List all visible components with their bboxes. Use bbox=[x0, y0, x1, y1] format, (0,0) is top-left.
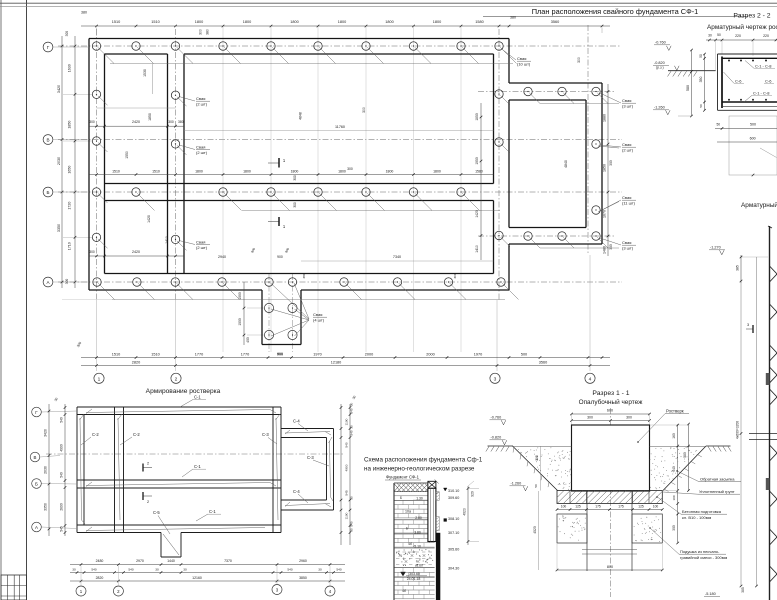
svg-text:380: 380 bbox=[206, 29, 210, 35]
lower plan С-1 label top with leader bbox=[180, 395, 206, 408]
svg-text:1420: 1420 bbox=[475, 210, 479, 218]
right excavation slope line section 1-1 bbox=[663, 446, 706, 492]
svg-text:(4 шт): (4 шт) bbox=[313, 318, 325, 323]
rebar section dots section 2-2 bbox=[728, 60, 767, 101]
svg-text:50: 50 bbox=[699, 104, 703, 108]
grid centerline column 1 vertical dash-dot bbox=[96, 29, 98, 371]
svg-text:1580: 1580 bbox=[475, 20, 483, 24]
svg-text:1850: 1850 bbox=[148, 113, 152, 121]
svg-text:1800: 1800 bbox=[243, 20, 251, 24]
pile circles along annex bottom wall (Свая 3 шт) bbox=[524, 232, 619, 248]
svg-text:340: 340 bbox=[672, 466, 676, 472]
page frame inner left border line bbox=[26, 0, 28, 600]
lower plan grid bubble 4 bbox=[325, 566, 335, 597]
svg-text:380: 380 bbox=[302, 273, 306, 278]
svg-text:4840: 4840 bbox=[564, 160, 568, 168]
svg-text:3.80: 3.80 bbox=[414, 530, 421, 534]
rebar labels С-1 С-8 С-6 section 2-2 bbox=[724, 61, 776, 103]
svg-text:30: 30 bbox=[350, 528, 354, 532]
svg-text:385: 385 bbox=[741, 587, 745, 593]
svg-text:500: 500 bbox=[750, 123, 756, 127]
annex top wall centerline dash-dot bbox=[478, 91, 614, 93]
svg-text:1530: 1530 bbox=[143, 69, 147, 77]
svg-text:540: 540 bbox=[60, 472, 64, 478]
svg-text:380: 380 bbox=[178, 120, 184, 124]
grid bubble column 4 bbox=[585, 373, 595, 383]
svg-text:Ростверк: Ростверк bbox=[666, 409, 684, 414]
svg-text:1090: 1090 bbox=[238, 292, 242, 300]
svg-text:12160: 12160 bbox=[192, 576, 202, 580]
svg-text:600: 600 bbox=[607, 409, 613, 413]
right ground line with hatches section 1-1 bbox=[706, 446, 731, 452]
lower plan С-1 label bottom wall bbox=[196, 509, 221, 521]
svg-text:2420: 2420 bbox=[132, 120, 140, 124]
lower plan left inner dimension line 540 4990 540 2890 545 bbox=[54, 397, 67, 536]
lower plan С-3 label annex right wall bbox=[307, 455, 329, 466]
svg-text:(3 шт): (3 шт) bbox=[622, 246, 634, 251]
section subtitle Опалубочный чертеж bbox=[579, 398, 643, 406]
label Обратная засыпка with leader bbox=[676, 470, 741, 481]
annex bottom wall centerline dash-dot bbox=[478, 235, 614, 237]
svg-text:2030: 2030 bbox=[57, 157, 61, 165]
elevation mark -1.270 bbox=[709, 246, 725, 255]
borehole water level mark 303.60 24.01.18 bbox=[394, 572, 435, 581]
lower plan grid bubble 3 bbox=[272, 566, 282, 595]
lower plan interior wall strip column 2 bbox=[115, 407, 124, 533]
svg-text:Свая: Свая bbox=[196, 240, 205, 245]
svg-text:1970: 1970 bbox=[474, 352, 482, 356]
svg-text:Опалубочный чертеж: Опалубочный чертеж bbox=[579, 398, 643, 406]
svg-text:300: 300 bbox=[65, 279, 69, 285]
svg-text:1: 1 bbox=[98, 376, 101, 382]
svg-text:300: 300 bbox=[362, 107, 366, 113]
rebar run lines inside lower plan walls bbox=[80, 409, 334, 532]
svg-text:С-1: С-1 bbox=[194, 395, 201, 400]
svg-text:План расположения свайного фун: План расположения свайного фундамента СФ… bbox=[532, 7, 699, 16]
svg-text:2820: 2820 bbox=[96, 576, 104, 580]
svg-text:(2 шт): (2 шт) bbox=[196, 150, 208, 155]
svg-text:30: 30 bbox=[350, 425, 354, 429]
svg-text:4990: 4990 bbox=[60, 444, 64, 452]
lower plan С-4 label annex top bbox=[293, 419, 308, 432]
svg-text:1800: 1800 bbox=[433, 170, 441, 174]
svg-text:7370: 7370 bbox=[224, 559, 232, 563]
title Схема расположения фундамента Сф-1 bbox=[364, 457, 483, 473]
borehole layer 7 brick bottom bbox=[394, 568, 435, 599]
right backfill soil stipple section 1-1 bbox=[650, 447, 707, 490]
svg-text:1550: 1550 bbox=[125, 151, 129, 159]
lower plan middle wall strip row Б bbox=[77, 480, 281, 488]
bottom dimension row 1 of top plan (1510 1510 1770 1770 900 1970 2000 ...) bbox=[76, 341, 610, 359]
grid bubble column 3 bbox=[490, 373, 500, 383]
svg-text:300: 300 bbox=[65, 31, 69, 37]
svg-text:2420: 2420 bbox=[132, 250, 140, 254]
label Свая 2 шт annex right with leader bbox=[600, 142, 636, 153]
pile circles along top wall row Г (Свая 10 шт) bbox=[92, 42, 516, 64]
svg-text:(2 шт): (2 шт) bbox=[196, 245, 208, 250]
svg-text:Свая: Свая bbox=[622, 98, 631, 103]
svg-text:545: 545 bbox=[60, 526, 64, 532]
small dims 290 50 left of cap bbox=[534, 446, 540, 491]
svg-text:4: 4 bbox=[589, 376, 592, 382]
svg-text:4023: 4023 bbox=[463, 508, 467, 516]
svg-text:30: 30 bbox=[183, 568, 187, 572]
svg-text:2890: 2890 bbox=[60, 503, 64, 511]
top dimension line with values 1510 1510 1800 ... bbox=[81, 11, 610, 37]
svg-text:1480: 1480 bbox=[603, 246, 607, 254]
svg-text:-6.60: -6.60 bbox=[415, 564, 423, 568]
svg-text:С-2: С-2 bbox=[92, 432, 99, 437]
lower plan С-4 label annex bottom bbox=[293, 489, 308, 503]
grid bubble row В with leader bbox=[43, 135, 89, 145]
svg-text:В: В bbox=[46, 138, 49, 143]
svg-text:125: 125 bbox=[638, 505, 644, 509]
svg-text:1800: 1800 bbox=[338, 20, 346, 24]
svg-text:Свая: Свая bbox=[622, 195, 631, 200]
svg-text:4б: 4б bbox=[408, 542, 412, 546]
elevation mark -0.760 section 2-2 bbox=[654, 41, 671, 51]
svg-text:580: 580 bbox=[686, 85, 690, 91]
svg-text:4б: 4б bbox=[402, 589, 406, 593]
svg-text:1630: 1630 bbox=[68, 64, 72, 72]
svg-text:540: 540 bbox=[128, 568, 133, 572]
grid centerline column 2 vertical dash-dot bbox=[175, 29, 177, 371]
svg-text:С-3: С-3 bbox=[307, 455, 314, 460]
svg-text:Разрез 1 - 1: Разрез 1 - 1 bbox=[592, 390, 629, 397]
svg-text:3350: 3350 bbox=[57, 224, 61, 232]
vertical centerline of pile section 1-1 bbox=[610, 408, 612, 597]
top dimension 600 of section 1-1 bbox=[570, 409, 651, 426]
borehole topsoil layer crosshatch bbox=[394, 480, 439, 496]
top dimension row of section 2-2 (30 50 220 220) bbox=[706, 33, 777, 71]
svg-text:С-1: С-1 bbox=[194, 464, 201, 469]
svg-text:3: 3 bbox=[494, 376, 497, 382]
lower plan С-3 label wall 3 bbox=[262, 432, 277, 444]
svg-text:А: А bbox=[35, 525, 38, 530]
vertical dimension lines along ladder bbox=[736, 257, 758, 593]
lower plan grid bubble В bbox=[30, 452, 60, 462]
elevation mark -0.760 section 1-1 bbox=[490, 416, 506, 425]
grid centerline row Б horizontal dash-dot bbox=[58, 191, 622, 193]
elevation mark -0.820 section 1-1 bbox=[490, 436, 507, 445]
rebar ladder cross bracing chevrons bbox=[770, 266, 777, 582]
lower plan bottom dimension row 3 (2820 12160 3850) bbox=[70, 576, 345, 582]
svg-text:920: 920 bbox=[471, 491, 475, 497]
pile circles along bottom wall row А (Свая 10 шт) bbox=[93, 278, 519, 319]
svg-text:В: В bbox=[34, 455, 37, 460]
svg-text:540: 540 bbox=[91, 568, 96, 572]
svg-text:1670: 1670 bbox=[603, 210, 607, 218]
lower plan left wall strip column 1 bbox=[77, 407, 84, 533]
svg-text:1800: 1800 bbox=[338, 170, 346, 174]
svg-text:1510: 1510 bbox=[112, 170, 120, 174]
lower plan right wall strip column 3 bbox=[273, 407, 281, 533]
svg-text:1510: 1510 bbox=[152, 170, 160, 174]
svg-text:С-3: С-3 bbox=[262, 432, 269, 437]
svg-text:2820: 2820 bbox=[132, 360, 140, 364]
lower plan bottom dimension row 1 (2480 2970 1440 7370 2960) bbox=[70, 559, 345, 566]
dimension row 100 125 175 175 125 100 section 1-1 bbox=[556, 505, 664, 511]
page frame top border line bbox=[0, 3, 777, 6]
lower plan grid bubble А bbox=[32, 522, 77, 532]
svg-text:1710: 1710 bbox=[68, 242, 72, 250]
svg-text:1800: 1800 bbox=[433, 20, 441, 24]
svg-text:540: 540 bbox=[336, 568, 341, 572]
svg-text:30: 30 bbox=[72, 568, 76, 572]
svg-text:Б: Б bbox=[35, 482, 38, 487]
bottom wall strip (row А) bbox=[89, 274, 509, 291]
bottom dimension row 2 of top plan (2820 12180 3560) bbox=[81, 360, 610, 367]
svg-text:-0.760: -0.760 bbox=[655, 41, 666, 45]
svg-text:1510: 1510 bbox=[112, 352, 120, 356]
svg-text:540: 540 bbox=[60, 417, 64, 423]
pile circles along middle wall row Б bbox=[132, 188, 500, 211]
svg-text:С-1 - С-8: С-1 - С-8 bbox=[755, 64, 772, 69]
rebar ladder splice rungs horizontal bbox=[749, 434, 777, 440]
lower plan annex right wall strip column 4 bbox=[327, 429, 334, 511]
pile circles along right wall column 3 bbox=[495, 90, 510, 247]
pile plan rectangle below section 2-2 bbox=[715, 116, 777, 176]
svg-text:кл. В10 - 100мм: кл. В10 - 100мм bbox=[682, 515, 711, 520]
svg-text:4848: 4848 bbox=[299, 112, 303, 120]
svg-text:7340: 7340 bbox=[393, 255, 401, 259]
svg-text:1970: 1970 bbox=[313, 352, 321, 356]
svg-text:3350: 3350 bbox=[44, 503, 48, 511]
lower plan section cut mark 2 upper bbox=[143, 462, 152, 472]
svg-text:100: 100 bbox=[561, 505, 567, 509]
svg-text:600: 600 bbox=[750, 137, 756, 141]
svg-text:-1.260: -1.260 bbox=[511, 482, 522, 486]
pile circles along left wall column 1 bbox=[92, 90, 107, 248]
svg-text:1720: 1720 bbox=[68, 202, 72, 210]
svg-text:1850: 1850 bbox=[475, 113, 479, 121]
rebar cage thick lines section 2-2 bbox=[722, 57, 777, 109]
right vertical dimensions 160 580 340 100 300 section 1-1 bbox=[650, 423, 690, 545]
label Свая 2 шт middle with leader bbox=[179, 145, 210, 156]
label Свая 3 шт annex top with leader bbox=[600, 93, 636, 109]
elevation mark -0.820 section 2-2 bbox=[653, 61, 679, 70]
svg-text:580: 580 bbox=[683, 452, 687, 458]
left inner dimension line 1630 1850 ... bbox=[65, 31, 76, 288]
grid bubble column 1 bbox=[94, 373, 104, 383]
svg-text:2970: 2970 bbox=[136, 559, 144, 563]
svg-text:Свая: Свая bbox=[517, 56, 526, 61]
svg-text:2960: 2960 bbox=[299, 559, 307, 563]
borehole right dark bar bbox=[436, 492, 440, 600]
middle wall strip (row Б) bbox=[105, 184, 494, 201]
svg-text:Уплотненный грунт: Уплотненный грунт bbox=[699, 489, 735, 494]
svg-text:(11 шт): (11 шт) bbox=[622, 201, 636, 206]
borehole right vertical dimension 4023 bbox=[463, 481, 480, 545]
vertical dimension 4520 far left of section 1-1 bbox=[533, 466, 592, 597]
svg-text:220: 220 bbox=[763, 34, 769, 38]
borehole elevation labels bbox=[444, 488, 460, 570]
svg-text:30: 30 bbox=[350, 496, 354, 500]
svg-text:500: 500 bbox=[521, 352, 527, 356]
bottom protrusion walls bbox=[262, 290, 301, 345]
section title Разрез 1 - 1 bbox=[592, 390, 629, 397]
svg-text:300: 300 bbox=[587, 416, 593, 420]
svg-text:12180: 12180 bbox=[331, 360, 342, 364]
svg-text:10а: 10а bbox=[405, 510, 411, 514]
left wall strip (column 1) bbox=[89, 39, 105, 291]
svg-text:С-4: С-4 bbox=[293, 489, 300, 494]
borehole layer 3 brick hatch 10а 2.80 bbox=[394, 500, 435, 520]
svg-text:С-6: С-6 bbox=[765, 79, 772, 84]
svg-text:300: 300 bbox=[672, 525, 676, 531]
small rotated 300 dimension labels near wall 2 top bbox=[199, 29, 582, 171]
svg-text:3420: 3420 bbox=[57, 85, 61, 93]
left backfill soil stipple section 1-1 bbox=[513, 447, 572, 490]
bottom dimension 800 section 1-1 bbox=[556, 544, 664, 571]
vertical dimension 50 350 50 50 section 2-2 bbox=[699, 53, 706, 112]
svg-text:Обратная засыпка: Обратная засыпка bbox=[700, 477, 735, 482]
grid centerline row А horizontal dash-dot bbox=[58, 281, 622, 283]
section cut mark 1 lower bbox=[268, 217, 286, 229]
lower plan right dimension lines bbox=[340, 395, 357, 545]
rebar ladder vertical rail right edge bbox=[768, 226, 772, 600]
svg-text:1770: 1770 bbox=[195, 352, 203, 356]
lower plan С-2 label wall 2 bbox=[120, 432, 140, 445]
lower plan С-2 label left wall bbox=[81, 432, 99, 445]
pile circles along annex top wall (Свая 3 шт) bbox=[524, 87, 619, 103]
label Свая 2 шт lower with leader bbox=[179, 240, 210, 251]
svg-text:Арматурный чертеж рос: Арматурный чертеж рос bbox=[707, 23, 777, 31]
svg-text:-1.270: -1.270 bbox=[710, 246, 721, 250]
svg-text:540: 540 bbox=[345, 442, 349, 447]
svg-text:гравийной смеси - 300мм: гравийной смеси - 300мм bbox=[680, 555, 727, 560]
svg-text:Армирование ростверка: Армирование ростверка bbox=[146, 388, 221, 395]
svg-text:2940: 2940 bbox=[218, 255, 226, 259]
svg-text:Фундамент СФ-1: Фундамент СФ-1 bbox=[386, 475, 420, 480]
pile cap beam outline section 2-2 bbox=[718, 54, 777, 110]
svg-text:С-4: С-4 bbox=[293, 419, 300, 424]
pile circles along annex right wall (Свая 2 шт) bbox=[592, 140, 619, 214]
svg-text:Свая: Свая bbox=[622, 240, 631, 245]
section cut mark 1 upper bbox=[268, 158, 286, 168]
svg-text:11760: 11760 bbox=[335, 125, 345, 129]
svg-text:3560: 3560 bbox=[551, 20, 559, 24]
grid bubble row А with leader bbox=[43, 277, 89, 287]
section subtitle Арматурный чертеж ростверка bbox=[707, 23, 777, 31]
rebar ladder splice plates bbox=[766, 373, 770, 490]
svg-text:С-1 - С-8: С-1 - С-8 bbox=[753, 91, 770, 96]
pile cap rectangle section 1-1 (Ростверк) bbox=[572, 425, 650, 491]
lower plan top wall strip row Г bbox=[77, 407, 281, 415]
svg-text:160: 160 bbox=[672, 433, 676, 439]
svg-text:30: 30 bbox=[155, 568, 159, 572]
elevation mark -1.260 section 1-1 bbox=[510, 482, 528, 491]
pile circles along interior wall column 2 (Свая 2 шт groups) bbox=[171, 91, 186, 250]
borehole layer 6 sandy dotted bbox=[394, 549, 435, 567]
lower plan bottom dimension row 2 (540 ticks) bbox=[70, 568, 345, 574]
svg-text:4520: 4520 bbox=[533, 526, 537, 534]
svg-text:385: 385 bbox=[736, 265, 740, 271]
lower plan grid bubble 2 bbox=[113, 566, 123, 597]
svg-text:380: 380 bbox=[81, 11, 87, 15]
borehole layer 5 brick 4б -5.10 bbox=[394, 534, 435, 549]
left excavation slope line section 1-1 bbox=[513, 446, 558, 491]
grid centerline row В horizontal dash-dot bbox=[58, 139, 622, 141]
svg-text:3560: 3560 bbox=[539, 360, 547, 364]
annex right wall strip (column 4) bbox=[586, 83, 602, 244]
elevation label -5.180 bottom right bbox=[704, 592, 720, 596]
svg-text:300: 300 bbox=[293, 202, 297, 208]
svg-text:1800: 1800 bbox=[291, 170, 299, 174]
svg-text:Подушка из песчано-: Подушка из песчано- bbox=[680, 549, 720, 554]
borehole layer 4 brick Б 3.80 bbox=[394, 520, 435, 535]
svg-text:2: 2 bbox=[175, 376, 178, 382]
svg-text:Б: Б bbox=[406, 527, 408, 531]
svg-text:1000: 1000 bbox=[238, 318, 242, 326]
svg-text:Свая: Свая bbox=[622, 142, 631, 147]
page frame outer left border line bbox=[0, 0, 2, 600]
svg-text:1190: 1190 bbox=[345, 512, 349, 519]
svg-text:1800: 1800 bbox=[195, 20, 203, 24]
svg-text:545: 545 bbox=[345, 490, 349, 495]
svg-text:(10 шт): (10 шт) bbox=[517, 62, 531, 67]
svg-text:30: 30 bbox=[350, 403, 354, 407]
svg-text:350: 350 bbox=[699, 77, 703, 83]
svg-text:Разрез 2 - 2: Разрез 2 - 2 bbox=[733, 13, 770, 20]
svg-text:100: 100 bbox=[672, 495, 676, 500]
annex top wall strip bbox=[509, 83, 602, 100]
svg-text:304.30: 304.30 bbox=[448, 566, 459, 570]
lower plan grid bubble 1 bbox=[76, 566, 86, 597]
svg-text:1190: 1190 bbox=[345, 418, 349, 425]
svg-text:309.60: 309.60 bbox=[448, 496, 459, 500]
svg-text:300: 300 bbox=[89, 250, 95, 254]
grid bubble column 2 bbox=[171, 373, 181, 383]
svg-text:1800: 1800 bbox=[386, 170, 394, 174]
svg-text:Свая: Свая bbox=[313, 312, 322, 317]
right side dimension line of plan 1880 1850 1670 1480 bbox=[603, 84, 614, 256]
borehole column outline bbox=[394, 483, 435, 600]
svg-text:2030: 2030 bbox=[44, 466, 48, 474]
lower plan annex bottom wall strip bbox=[281, 500, 334, 510]
svg-text:1410: 1410 bbox=[165, 236, 169, 244]
left ground line with hatches section 1-1 bbox=[486, 446, 513, 452]
ground level line with hatching section 2-2 bbox=[668, 71, 716, 77]
grid centerline column 4 vertical dash-dot bbox=[588, 25, 590, 371]
svg-text:1410: 1410 bbox=[475, 245, 479, 253]
svg-text:1800: 1800 bbox=[290, 20, 298, 24]
svg-text:307.10: 307.10 bbox=[448, 531, 459, 535]
lower plan section cut mark 2 lower bbox=[143, 492, 152, 504]
svg-text:3850: 3850 bbox=[299, 576, 307, 580]
svg-text:175: 175 bbox=[595, 505, 601, 509]
svg-text:1800: 1800 bbox=[195, 170, 203, 174]
label Свая 10 шт with leader bbox=[501, 49, 531, 67]
label Бетонная подготовка with leader bbox=[658, 498, 727, 521]
svg-text:50: 50 bbox=[699, 54, 703, 58]
svg-text:(3 шт): (3 шт) bbox=[622, 104, 634, 109]
svg-text:100: 100 bbox=[653, 505, 659, 509]
svg-text:300: 300 bbox=[168, 120, 174, 124]
svg-text:(2 шт): (2 шт) bbox=[622, 148, 634, 153]
svg-text:1580: 1580 bbox=[475, 170, 483, 174]
svg-text:1850: 1850 bbox=[603, 164, 607, 172]
svg-text:(р.з.): (р.з.) bbox=[656, 66, 664, 70]
vertical dimension 580 section 2-2 bbox=[678, 49, 693, 118]
svg-text:Арматурный ч: Арматурный ч bbox=[741, 201, 777, 209]
svg-text:1850: 1850 bbox=[68, 121, 72, 129]
lower plan annex top wall strip bbox=[281, 429, 334, 438]
svg-text:1800: 1800 bbox=[385, 20, 393, 24]
svg-text:С-2: С-2 bbox=[133, 432, 140, 437]
svg-text:1880: 1880 bbox=[603, 114, 607, 122]
svg-text:400: 400 bbox=[246, 337, 250, 343]
